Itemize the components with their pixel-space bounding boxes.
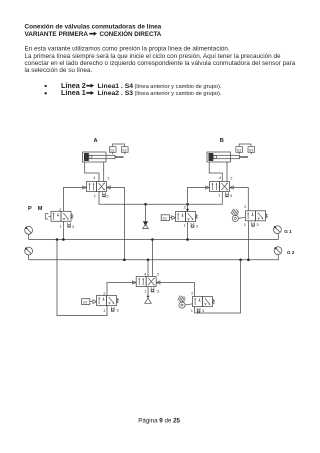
pressure gauge line 2 left	[25, 247, 33, 260]
svg-text:La primera línea siempre será: La primera línea siempre será la que ini…	[25, 53, 281, 60]
svg-text:Página 9 de 25: Página 9 de 25	[138, 417, 180, 424]
svg-text:S4: S4	[83, 300, 87, 304]
junction line1/branch to lower-left group	[56, 238, 59, 241]
wire bottom-right valve port1 to line 2	[195, 260, 241, 313]
valve S3-select (3/2, roller actuated, bottom right)	[178, 290, 215, 313]
wire supply line (valve A port1 - valve B port1)	[99, 192, 222, 205]
start valve P M (3/2 pushbutton)	[45, 207, 75, 229]
svg-text:VARIANTE PRIMERA: VARIANTE PRIMERA	[25, 31, 89, 38]
svg-text:A: A	[94, 138, 98, 144]
wire cylinder A left port to valve 4	[85, 162, 99, 182]
cylinder B	[207, 152, 248, 162]
svg-text:(línea anterior y cambio de gr: (línea anterior y cambio de grupo).	[135, 84, 222, 90]
svg-text:conectar en el lado derecho o: conectar en el lado derecho o izquierdo …	[25, 60, 296, 67]
pressure gauge G2	[274, 247, 295, 255]
wire cylinder B right port to valve 2	[226, 162, 228, 182]
svg-text:B: B	[220, 138, 224, 144]
svg-text:S3: S3	[237, 149, 241, 153]
svg-text:G 1: G 1	[284, 229, 292, 234]
cylinder A	[83, 152, 124, 162]
svg-text:Conexión de válvulas conmutado: Conexión de válvulas conmutadoras de lín…	[25, 24, 162, 31]
wire valve A right pilot to line 2	[107, 188, 125, 260]
position ruler / sensor flags for cylinder A	[109, 144, 128, 154]
wire line 1	[29, 234, 279, 240]
junction line1/PM supply	[62, 238, 65, 241]
wire line2 to changeover port4	[147, 260, 149, 277]
pressure gauge line 1 left	[25, 226, 33, 239]
svg-text:S4: S4	[249, 149, 253, 153]
wire cylinder A right port to valve 2	[103, 162, 105, 182]
junction supply / S3 branch	[186, 203, 189, 206]
svg-text:G 2: G 2	[287, 250, 295, 255]
svg-text:la selección de su línea.: la selección de su línea.	[25, 67, 93, 74]
air supply source symbol	[143, 204, 149, 228]
valve S3 (3/2, remote sensor actuated)	[161, 204, 199, 228]
wire bottom-left valve output to changeover left pilot	[107, 283, 136, 296]
wire line 2	[29, 255, 279, 260]
junction line1/changeover port2	[151, 238, 154, 241]
junction line2/changeover port4	[147, 259, 150, 262]
wire changeover right pilot from bottom-right valve output	[156, 283, 194, 297]
junction line2/lower-right branch	[239, 259, 242, 262]
line changeover valve (4/2 double pilot)	[132, 272, 160, 294]
junction air source	[144, 203, 147, 206]
wire line1 to changeover port2	[151, 240, 153, 277]
position ruler / sensor flags for cylinder B	[236, 144, 255, 154]
bullet 2	[45, 92, 47, 94]
junction line2/S4 supply	[247, 259, 250, 262]
svg-text:S2: S2	[122, 149, 126, 153]
svg-text:Línea 1: Línea 1	[61, 88, 86, 97]
svg-text:Linea1 . S4: Linea1 . S4	[98, 83, 134, 90]
exhaust triangle	[147, 296, 150, 299]
valve for cylinder B (4/2 double pilot)	[206, 175, 234, 198]
wire PM valve port1 to line 1	[62, 221, 64, 239]
wire changeover port1 to exhaust	[147, 287, 149, 299]
wire S4 port1 to line 2	[247, 221, 249, 260]
svg-text:P M: P M	[28, 206, 45, 212]
bullet 1	[45, 85, 47, 87]
wire S3 port1 to line 1	[187, 222, 189, 240]
valve S4 (3/2, roller actuated)	[231, 204, 267, 227]
svg-text:En esta variante utilizamos co: En esta variante utilizamos como presión…	[25, 46, 230, 53]
wire cylinder B left port to valve 4	[209, 162, 222, 182]
svg-text:CONEXIÓN DIRECTA: CONEXIÓN DIRECTA	[100, 30, 162, 38]
svg-text:S3: S3	[163, 216, 167, 220]
svg-text:Línea2 . S3: Línea2 . S3	[98, 90, 134, 97]
wire line1 branch to bottom-left valve port1	[57, 240, 107, 316]
junction line2/valve A right pilot	[123, 259, 126, 262]
valve for cylinder A (4/2 double pilot)	[83, 175, 111, 198]
wire valve A left pilot from PM valve output 2	[63, 188, 86, 212]
junction line1/S3 supply	[186, 238, 189, 241]
valve S4-select (3/2, remote sensor actuated, bottom left)	[82, 291, 120, 313]
wire valve B right pilot from S4 valve output	[230, 188, 249, 211]
svg-text:S1: S1	[110, 149, 114, 153]
pressure gauge G1	[274, 226, 293, 234]
wire valve B left pilot from S3 valve output	[188, 188, 210, 212]
svg-text:(línea anterior y cambio de gr: (línea anterior y cambio de grupo).	[135, 91, 222, 97]
